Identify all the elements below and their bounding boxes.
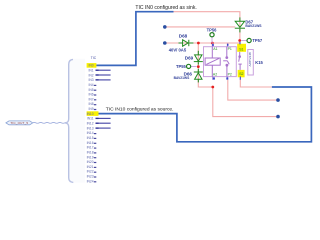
svg-text:IN2: IN2 bbox=[88, 73, 93, 77]
relay coil symbol bbox=[205, 47, 220, 77]
wire pink D67 column to S1 bbox=[239, 41, 241, 44]
svg-text:IN18: IN18 bbox=[87, 150, 94, 154]
svg-text:IN1: IN1 bbox=[88, 69, 93, 73]
svg-text:IN6: IN6 bbox=[88, 93, 93, 97]
svg-text:TIC: TIC bbox=[91, 56, 97, 60]
relay pin stub P1 top bbox=[226, 44, 228, 47]
svg-text:IN20: IN20 bbox=[87, 160, 94, 164]
relay pin number mark A1 bbox=[212, 44, 214, 46]
svg-text:IN9: IN9 bbox=[88, 107, 93, 111]
svg-text:IN22: IN22 bbox=[87, 170, 94, 174]
svg-text:TIC IN10 configured as source.: TIC IN10 configured as source. bbox=[106, 107, 174, 113]
no-connect marks IN4..IN9 IN14..IN24 bbox=[94, 85, 96, 183]
relay pin stub A2 bottom bbox=[212, 77, 214, 80]
wire end dot at 164.8,43 bbox=[163, 41, 167, 45]
test point TP56 bbox=[207, 27, 218, 43]
svg-text:IN7: IN7 bbox=[88, 97, 93, 101]
svg-text:IN4: IN4 bbox=[88, 83, 93, 87]
relay pin stub A1 top bbox=[211, 43, 213, 47]
svg-text:TIC IN0 configured as sink.: TIC IN0 configured as sink. bbox=[135, 5, 196, 11]
svg-text:TP55: TP55 bbox=[176, 64, 187, 69]
junction dot A1 bbox=[211, 42, 214, 45]
wire pink D69 D66 column bbox=[198, 43, 213, 87]
svg-text:IN12: IN12 bbox=[87, 122, 94, 126]
wire stubs IN1 IN2 IN3 bbox=[96, 70, 111, 80]
svg-text:IN17: IN17 bbox=[87, 146, 94, 150]
pin S1 blue stub bbox=[239, 42, 241, 45]
wire end dot at 278,116.6 bbox=[276, 115, 280, 119]
svg-text:P2: P2 bbox=[228, 72, 232, 76]
svg-text:AZ8Y2148: AZ8Y2148 bbox=[248, 52, 252, 67]
relay contact P1-P2 bbox=[223, 47, 229, 77]
svg-text:D68: D68 bbox=[179, 34, 188, 39]
harness brace bbox=[65, 59, 73, 182]
test point TP57 bbox=[241, 38, 263, 43]
wire blue net IN0 bbox=[96, 12, 173, 66]
diode D67 bbox=[235, 17, 245, 32]
wire pink stub y26.9 bbox=[165, 26, 235, 28]
svg-text:IN13: IN13 bbox=[87, 126, 94, 130]
svg-text:IN23: IN23 bbox=[87, 175, 94, 179]
pin S1 highlight bbox=[237, 44, 246, 52]
svg-text:IN14: IN14 bbox=[87, 131, 94, 135]
wire pink S2 net bbox=[240, 80, 271, 87]
svg-text:TP56: TP56 bbox=[207, 27, 218, 32]
relay pin stub P2 bottom bbox=[226, 77, 228, 80]
svg-text:IN0: IN0 bbox=[88, 64, 93, 68]
svg-text:D69: D69 bbox=[185, 55, 194, 60]
relay K15 coil box bbox=[204, 47, 237, 77]
svg-text:BAV21WS: BAV21WS bbox=[174, 76, 190, 80]
junction dot D69-D66-TP55 bbox=[197, 65, 200, 68]
connector TIC pin labels IN0..IN24 bbox=[87, 64, 94, 184]
pin IN10 highlight bbox=[87, 111, 99, 116]
svg-text:S1: S1 bbox=[239, 47, 243, 51]
svg-text:P1: P1 bbox=[228, 47, 232, 51]
pin S2 blue stub bbox=[239, 76, 241, 79]
junction dot D68-D69 column bbox=[197, 42, 200, 45]
wire pink A2 net down to blue dot bbox=[213, 87, 278, 117]
wire blue net IN10 bbox=[99, 87, 312, 142]
svg-text:IN16: IN16 bbox=[87, 141, 94, 145]
svg-text:40V/ 0A5: 40V/ 0A5 bbox=[169, 47, 187, 52]
relay contact S1-S2 bbox=[238, 52, 241, 70]
wire stubs IN11 IN12 IN13 bbox=[96, 118, 111, 128]
svg-text:K15: K15 bbox=[255, 60, 263, 65]
svg-text:IN5: IN5 bbox=[88, 88, 93, 92]
pin S2 highlight bbox=[238, 70, 245, 77]
wire end dot at 164.8,26.9 bbox=[163, 25, 167, 29]
junction dot A2-D66 bbox=[211, 86, 214, 89]
svg-text:S2: S2 bbox=[239, 72, 243, 76]
relay K15 contact part box bbox=[248, 50, 254, 76]
wire pink top horizontal to D67 column bbox=[174, 12, 240, 41]
relay pin number mark P1 bbox=[227, 44, 229, 46]
svg-text:TIC_OUT_5: TIC_OUT_5 bbox=[10, 121, 28, 125]
pin IN0 highlight bbox=[87, 63, 97, 68]
svg-text:IN11: IN11 bbox=[87, 117, 94, 121]
harness body tint bbox=[69, 59, 85, 183]
harness squiggle wire bbox=[33, 121, 66, 124]
svg-text:IN19: IN19 bbox=[87, 155, 94, 159]
junction dot D67-TP57 bbox=[238, 39, 241, 42]
wire pink main horizontal y43 bbox=[165, 42, 240, 44]
svg-text:BAV21WS: BAV21WS bbox=[245, 24, 262, 28]
diode D69 bbox=[194, 51, 203, 65]
diode D68 bbox=[179, 40, 194, 46]
svg-text:IN10: IN10 bbox=[87, 112, 94, 116]
diode D66 bbox=[194, 69, 203, 83]
svg-text:IN15: IN15 bbox=[87, 136, 94, 140]
svg-text:IN21: IN21 bbox=[87, 165, 94, 169]
svg-text:IN3: IN3 bbox=[88, 78, 93, 82]
wire end dot at 278,100.1 bbox=[276, 98, 280, 102]
svg-text:TP57: TP57 bbox=[252, 38, 263, 43]
svg-text:IN24: IN24 bbox=[87, 179, 94, 183]
relay pin number mark A2 bbox=[213, 77, 215, 79]
relay pin number mark P2 bbox=[226, 77, 228, 79]
wire pink P2 net down to blue dot bbox=[228, 80, 278, 101]
port TIC_OUT_5 bbox=[6, 121, 33, 125]
test point TP55 bbox=[176, 64, 196, 69]
svg-text:A1: A1 bbox=[213, 47, 217, 51]
svg-text:IN8: IN8 bbox=[88, 102, 93, 106]
svg-text:A2: A2 bbox=[213, 72, 217, 76]
